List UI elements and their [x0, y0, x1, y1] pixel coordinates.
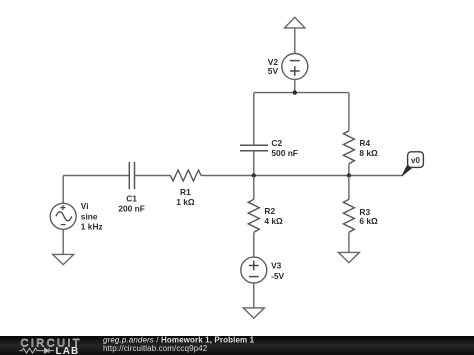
resistor R4 (8 kOhm): [343, 131, 378, 164]
wire: R3 bottom to ground: [348, 232, 350, 252]
wire: main rail, Vi to C1: [63, 175, 129, 177]
capacitor C2 (500 nF): [240, 138, 298, 158]
ground below V3: [243, 308, 264, 318]
voltage source V2 (5V): [268, 54, 308, 80]
wire: R2 bottom to V3: [253, 232, 255, 257]
svg-text:http://circuitlab.com/ccq9p42: http://circuitlab.com/ccq9p42: [103, 344, 208, 353]
wire: V3 bottom to ground: [253, 283, 255, 308]
wire: main rail down to R2: [253, 176, 255, 200]
resistor R2 (4 kOhm): [248, 199, 283, 232]
resistor R1 (1 kOhm): [171, 170, 202, 207]
wire: main rail down to Vi: [62, 176, 64, 204]
node flag v0: [402, 152, 423, 176]
voltage source V3 (-5V): [241, 257, 285, 283]
capacitor C1 (200 nF): [118, 162, 145, 214]
wire: R4 bottom to main rail: [348, 164, 350, 176]
CircuitLab logo: resistor zigzag and diode: [20, 348, 55, 353]
wire: top rail down to R4: [348, 93, 350, 131]
power flag (VCC arrow) for V2: [285, 17, 305, 28]
footer attribution bar: [0, 336, 474, 355]
node junction at R4/R3 on main rail: [347, 173, 351, 177]
ground below Vi: [53, 254, 74, 264]
resistor R3 (6 kOhm): [343, 199, 378, 232]
node junction at C2/R2 on main rail: [252, 173, 256, 177]
wire: main rail, R1 to v0: [201, 175, 403, 177]
voltage source Vi (sine 1 kHz): [50, 201, 102, 232]
wire: top rail down to C2: [253, 93, 255, 146]
wire: C2 bottom to main rail: [253, 151, 255, 176]
wire: Vi bottom to ground: [62, 229, 64, 254]
ground below R3: [338, 252, 359, 262]
wire: VCC arrow to V2 top: [294, 28, 296, 54]
wire: V2 bottom to top rail: [294, 80, 296, 93]
node junction at V2 / top rail: [293, 90, 297, 94]
svg-text:LAB: LAB: [56, 346, 80, 355]
wire: top rail: [254, 92, 349, 94]
wire: main rail down to R3: [348, 176, 350, 200]
wire: main rail, C1 to R1: [135, 175, 171, 177]
